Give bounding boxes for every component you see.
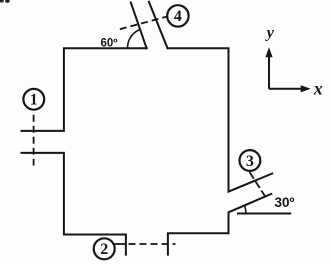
svg-text:1: 1 bbox=[30, 92, 38, 109]
svg-text:3: 3 bbox=[246, 153, 254, 170]
svg-text:2: 2 bbox=[100, 241, 108, 258]
svg-text:4: 4 bbox=[174, 8, 182, 25]
svg-text:60º: 60º bbox=[101, 38, 118, 50]
svg-text:y: y bbox=[265, 25, 275, 42]
svg-text:x: x bbox=[313, 78, 323, 98]
svg-text:30º: 30º bbox=[275, 195, 295, 210]
